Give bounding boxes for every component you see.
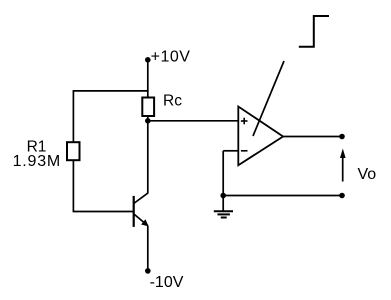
wire junction to op-amp non-inverting input xyxy=(148,120,239,122)
node +10V terminal dot xyxy=(145,57,151,63)
annotation open-loop line xyxy=(253,61,284,136)
wire emitter to -10V xyxy=(147,226,149,271)
wire junction to ground symbol xyxy=(222,196,224,212)
ground xyxy=(214,211,233,217)
op-amp U1 xyxy=(238,107,283,166)
wire inverting input vertical xyxy=(222,151,224,196)
resistor Rc xyxy=(142,98,154,117)
wire bottom return xyxy=(223,195,342,197)
wire +10V to Rc top xyxy=(147,60,149,98)
junction node below Rc xyxy=(145,118,151,124)
arrow Vo xyxy=(340,149,346,182)
transistor Q1 xyxy=(134,193,149,227)
svg-text:+10V: +10V xyxy=(151,49,191,66)
svg-text:Vo: Vo xyxy=(358,166,377,183)
wire top-left horizontal (R1 top to +10V rail) xyxy=(73,90,149,92)
node -10V terminal dot xyxy=(145,268,151,274)
resistor R1 xyxy=(67,142,80,160)
wire R1 bottom leg xyxy=(72,160,74,211)
node output terminal dot xyxy=(339,134,345,140)
wire base horizontal xyxy=(73,211,134,213)
wire Rc bottom to collector (through junction) xyxy=(147,116,149,193)
step waveform symbol xyxy=(299,16,329,47)
svg-text:Rc: Rc xyxy=(163,92,182,109)
wire op-amp output xyxy=(283,136,342,138)
junction node at ground xyxy=(220,193,226,199)
wire R1 top leg xyxy=(72,91,74,143)
wire inverting input horizontal xyxy=(223,150,238,152)
node bottom output terminal dot xyxy=(339,193,345,199)
svg-text:1.93M: 1.93M xyxy=(13,153,61,170)
svg-text:-10V: -10V xyxy=(150,274,184,291)
